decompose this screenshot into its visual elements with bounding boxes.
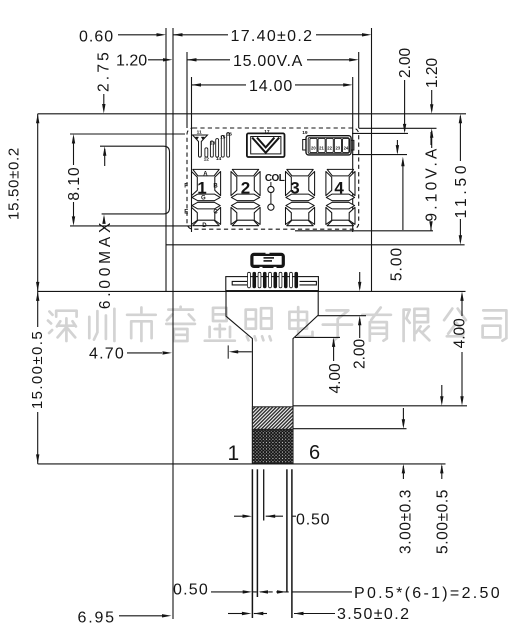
svg-text:G: G: [201, 196, 206, 202]
dim 4.00 flex: [332, 337, 335, 347]
antenna icon: [193, 135, 208, 157]
flex left edge: [226, 291, 252, 463]
svg-text:2.75: 2.75: [95, 49, 112, 92]
dim 9.10V.A: [430, 132, 432, 145]
15.00 top arrow: [36, 291, 39, 301]
hatch middle ext: [293, 428, 407, 430]
svg-text:4: 4: [334, 178, 344, 197]
svg-text:5.00±0.5: 5.00±0.5: [434, 489, 451, 554]
battery cell 5: [343, 138, 350, 152]
signal bars: [205, 148, 208, 157]
svg-text:B: B: [213, 184, 218, 190]
svg-text:14: 14: [216, 156, 222, 162]
antenna inner mark L: [195, 137, 198, 140]
comb teeth: [248, 272, 251, 288]
svg-text:9.10V.A: 9.10V.A: [423, 145, 440, 221]
svg-text:15.00±0.5: 15.00±0.5: [29, 330, 46, 409]
dim 3.50±0.2: [228, 613, 242, 615]
dim 0.60 arrow: [157, 33, 167, 36]
svg-text:19: 19: [302, 130, 308, 136]
svg-text:24: 24: [344, 146, 349, 151]
flex end line + exts: [38, 463, 446, 465]
svg-text:2: 2: [241, 178, 250, 197]
svg-text:1: 1: [228, 442, 240, 465]
svg-text:6.00MAX: 6.00MAX: [97, 219, 114, 309]
watermark company name (vector hanzi): [48, 307, 506, 341]
comb right arm: [300, 281, 317, 285]
chamfer top ext right: [318, 315, 366, 317]
dim 2.75 up arrow: [103, 146, 106, 156]
svg-text:15.00V.A: 15.00V.A: [233, 53, 303, 70]
svg-text:1.20: 1.20: [116, 53, 147, 70]
svg-text:2.00: 2.00: [397, 47, 414, 78]
dim 2.00 arrow: [403, 124, 406, 133]
15.50 bottom arrow: [36, 282, 39, 292]
svg-text:P0.5*(6-1)=2.50: P0.5*(6-1)=2.50: [354, 585, 502, 602]
flex stiffener diagonal hatch: [252, 407, 293, 430]
dim 14.00: [192, 83, 202, 86]
svg-text:23: 23: [335, 146, 340, 151]
15.00 bottom arrow: [36, 454, 39, 464]
VA left ext: [186, 52, 188, 128]
svg-text:5.00: 5.00: [389, 247, 406, 281]
dim 0.50 pin width: [234, 515, 243, 517]
ITO step line (0.60 offset) + lower ref line: [172, 28, 174, 619]
V.A dashed border: [187, 128, 359, 229]
svg-text:15.50±0.2: 15.50±0.2: [6, 147, 23, 220]
pin traces: [251, 469, 253, 618]
svg-text:F: F: [184, 184, 188, 190]
svg-text:17.40±0.2: 17.40±0.2: [231, 28, 314, 45]
dim 5.00±0.5: [441, 385, 443, 403]
svg-text:11.50: 11.50: [453, 162, 470, 219]
dim 3.00±0.3: [402, 408, 404, 426]
svg-text:21: 21: [319, 146, 324, 151]
svg-text:1.20: 1.20: [424, 57, 441, 88]
battery left nub: [303, 140, 306, 151]
dim 8.10: [73, 137, 75, 165]
svg-text:0.60: 0.60: [79, 29, 114, 46]
battery right tab: [351, 140, 354, 150]
15.50 top arrow: [36, 114, 39, 124]
glass right edge + ext: [371, 28, 373, 291]
svg-text:4.00: 4.00: [451, 318, 468, 349]
svg-text:3: 3: [290, 178, 299, 197]
dim 5.00 right: [401, 157, 404, 167]
svg-text:6: 6: [309, 442, 320, 464]
svg-text:0.50: 0.50: [296, 512, 330, 529]
digits bottom ext right: [295, 230, 433, 232]
flex right edge: [293, 291, 318, 463]
svg-text:20: 20: [311, 146, 316, 151]
polarizer left contour + ext lines: [100, 146, 170, 214]
antenna inner mark R: [201, 137, 204, 140]
svg-text:8.10: 8.10: [66, 166, 83, 200]
battery icon: [306, 136, 351, 155]
svg-text:17: 17: [264, 129, 270, 135]
7-segment digit 1: [193, 169, 219, 176]
battery top ext: [352, 132, 408, 134]
svg-text:E: E: [184, 210, 188, 216]
svg-text:22: 22: [327, 146, 332, 151]
left dim line lower: [37, 412, 39, 464]
svg-text:0.50: 0.50: [173, 582, 209, 599]
dim 6.00MAX: [102, 214, 105, 224]
dim 17.40±0.2: [173, 33, 183, 36]
svg-text:6.95: 6.95: [78, 610, 116, 627]
comb connector body: [226, 277, 319, 291]
comb left arm: [232, 281, 247, 285]
digits bottom ext left (8.10 bottom): [70, 225, 192, 227]
tail top ext right: [295, 336, 340, 338]
triangle icon: [247, 133, 285, 157]
hatch top ext: [293, 405, 467, 407]
svg-text:4.00: 4.00: [327, 363, 344, 394]
glass bottom edge + exts: [38, 290, 466, 292]
dim 4.00 right of flex: [460, 291, 463, 301]
svg-text:14.00: 14.00: [249, 78, 293, 95]
svg-text:4.70: 4.70: [89, 346, 125, 363]
svg-text:D: D: [202, 223, 207, 229]
7-segment digit 3: [287, 169, 313, 176]
small arrow battery bottom: [396, 140, 398, 153]
battery cell 2: [318, 138, 325, 152]
battery bottom ext: [352, 154, 407, 156]
svg-text:12: 12: [204, 156, 210, 162]
14.00 right ext: [352, 77, 354, 232]
svg-text:11: 11: [197, 130, 202, 136]
svg-text:COL: COL: [265, 173, 285, 184]
battery cell 4: [334, 138, 341, 152]
svg-text:3.00±0.3: 3.00±0.3: [397, 489, 414, 554]
chip mark: [264, 257, 275, 259]
battery cell 1: [310, 138, 317, 152]
icons top ext (8.10 top): [70, 133, 185, 135]
battery cell 3: [326, 138, 333, 152]
svg-text:A: A: [203, 171, 208, 177]
svg-text:16: 16: [227, 131, 233, 137]
glass left edge + ext: [165, 28, 167, 291]
flex contact cross hatch: [252, 429, 293, 463]
svg-text:C: C: [213, 210, 218, 216]
glass top edge + exts: [38, 113, 466, 115]
VA top ext right: [359, 127, 437, 129]
dim 15.00V.A: [187, 58, 197, 61]
svg-text:15: 15: [220, 135, 226, 141]
IC chip on glass ledge: [252, 254, 283, 266]
small dim marker at flex left shoulder: [227, 345, 229, 358]
svg-text:13: 13: [210, 141, 216, 147]
svg-text:2.00: 2.00: [351, 338, 368, 369]
VA right ext: [358, 52, 360, 128]
dim 2.00 flex right: [358, 316, 361, 326]
dim 11.50: [459, 116, 461, 161]
svg-text:1: 1: [197, 178, 206, 197]
svg-text:3.50±0.2: 3.50±0.2: [337, 606, 410, 623]
left dim line 15.50/15.00 upper: [37, 114, 39, 327]
7-segment digit 2: [232, 169, 258, 176]
dim 2.75 down arrow: [102, 104, 105, 114]
7-segment digit 4: [327, 169, 353, 176]
top glass lower edge (step) + ext: [166, 244, 465, 246]
14.00 left ext: [191, 77, 193, 232]
